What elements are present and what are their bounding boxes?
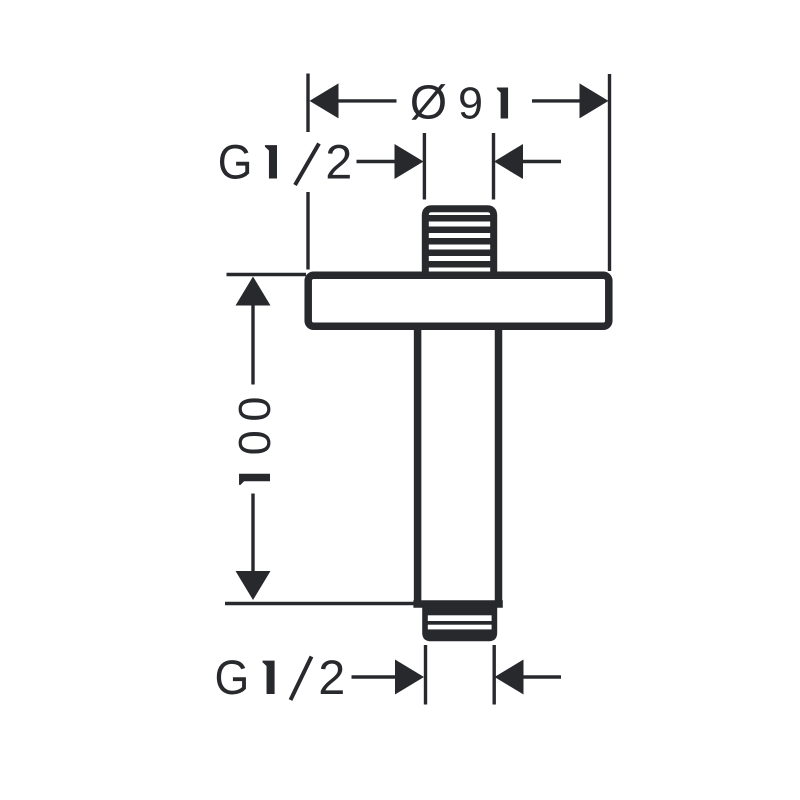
bottom thread block xyxy=(422,604,497,641)
thread stub thread line 4 xyxy=(428,250,493,257)
extension line thread-stub left xyxy=(423,133,426,200)
arrowhead G1/2 bottom left xyxy=(395,660,424,695)
dimension line Ø91 right segment xyxy=(532,99,580,102)
thread stub thread line 1 xyxy=(428,215,493,222)
thread stub thread line 5 xyxy=(428,261,493,268)
arrowhead G1/2 top left xyxy=(395,144,424,179)
extension line thread-stub right xyxy=(492,133,495,200)
label 100 (rotated) xyxy=(239,398,271,485)
arrowhead 100 down xyxy=(236,571,271,600)
dimension line Ø91 left segment xyxy=(338,99,397,102)
thread stub thread line 2 xyxy=(428,227,493,234)
pipe left wall xyxy=(414,329,422,602)
arrowhead Ø91 left xyxy=(310,83,339,118)
extension line bottom-thread right xyxy=(493,645,496,705)
pipe bottom shoulder xyxy=(413,600,502,608)
label G 1/2 top xyxy=(220,145,350,179)
extension line left of Ø91 (lower segment) xyxy=(306,192,309,270)
dimension line 100 lower segment xyxy=(251,494,254,572)
extension line bottom-thread left xyxy=(424,645,427,705)
extension line 100 top xyxy=(227,273,307,276)
extension line right of Ø91 xyxy=(608,74,611,271)
thread stub outline xyxy=(425,209,493,274)
thread stub thread line 3 xyxy=(428,238,493,245)
bottom thread white groove 1 xyxy=(428,615,492,621)
leader line G1/2 bottom left xyxy=(352,675,397,678)
extension line 100 bottom xyxy=(225,602,414,605)
dimension line 100 upper segment xyxy=(251,304,254,385)
extension line left of Ø91 (upper segment) xyxy=(306,74,309,133)
leader line G1/2 bottom right xyxy=(524,675,562,678)
arrowhead 100 up xyxy=(236,277,271,306)
slash of G 1/2 bottom xyxy=(291,657,312,701)
label Ø 91 xyxy=(411,84,508,120)
ceiling flange plate xyxy=(308,275,609,326)
arrowhead Ø91 right xyxy=(580,83,609,118)
bottom thread white groove 2 xyxy=(428,625,492,630)
slash of G 1/2 top xyxy=(295,144,319,186)
pipe right wall xyxy=(495,329,503,602)
leader line G1/2 top left xyxy=(357,160,398,163)
leader line G1/2 top right xyxy=(523,160,561,163)
arrowhead G1/2 top right xyxy=(494,144,523,179)
label G 1/2 bottom xyxy=(217,660,343,694)
arrowhead G1/2 bottom right xyxy=(495,660,524,695)
